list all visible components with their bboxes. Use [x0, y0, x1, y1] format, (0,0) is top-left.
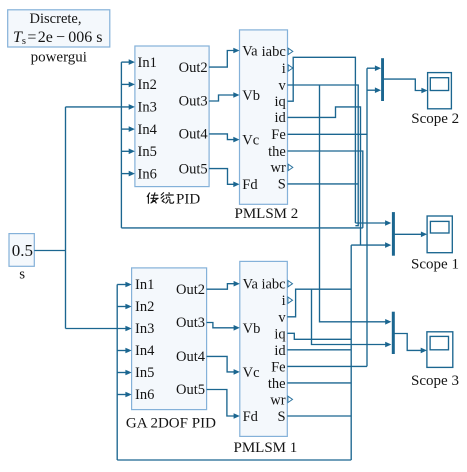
subsystem U2 GA 2DOF PID block [132, 268, 207, 410]
svg-text:powergui: powergui [31, 50, 87, 66]
wire In4 of U1 [121, 126, 134, 132]
wire PMLSM2 Fe [288, 133, 368, 135]
wire input trunk U1 [120, 62, 122, 228]
svg-text:Out5: Out5 [179, 161, 208, 177]
wire branch v to Scope3 mux input 2 [312, 289, 392, 347]
svg-text:Fe: Fe [271, 127, 286, 143]
wire U2 Out5 to PMLSM1 Fd [207, 390, 240, 419]
wire In6 of U2 [117, 392, 131, 398]
open arrow PMLSM2 iabc [288, 48, 293, 54]
PMLSM 2 block [240, 30, 288, 204]
wire In1 of U2 [117, 282, 131, 288]
wire feedback to U1 trunk [121, 227, 362, 229]
wire PMLSM2 v branch down to Scope3 mux input 1 [320, 85, 392, 325]
wire In3 of U1 [66, 104, 135, 110]
svg-text:id: id [274, 343, 286, 359]
wire PMLSM2 the [288, 151, 363, 228]
svg-text:In6: In6 [135, 387, 154, 403]
svg-text:Out4: Out4 [176, 349, 206, 365]
svg-text:i: i [282, 61, 286, 77]
svg-text:PMLSM 1: PMLSM 1 [234, 440, 298, 456]
wire U1 Out4 to PMLSM2 Vc [209, 134, 239, 143]
svg-text:wr: wr [270, 392, 285, 408]
svg-text:S: S [278, 177, 286, 193]
wire In2 of U2 [117, 304, 131, 310]
wire In5 of U1 [121, 149, 134, 155]
wire PMLSM2 iq [288, 57, 356, 223]
svg-text:In2: In2 [135, 299, 154, 315]
label 传统 PID (CJK glyphs drawn) [147, 191, 200, 207]
svg-text:Fe: Fe [271, 359, 286, 375]
wire riser from constant to In3 nodes [65, 107, 67, 329]
wire In3 of U2 [66, 326, 132, 332]
svg-text:In4: In4 [135, 343, 155, 359]
wire input trunk U2 [116, 285, 118, 461]
svg-text:Va: Va [243, 277, 259, 293]
open arrow PMLSM1 i [288, 297, 293, 303]
subsystem U1 传统 PID block [135, 46, 209, 187]
mux for Scope 1 [392, 212, 395, 256]
constant block 0.5 [9, 234, 34, 267]
Scope 3 block [427, 332, 453, 368]
wire PMLSM1 S [287, 415, 351, 417]
svg-text:the: the [268, 144, 286, 160]
wire PMLSM1 Fe [287, 365, 367, 367]
svg-text:s: s [19, 267, 25, 283]
svg-text:Out2: Out2 [179, 60, 208, 76]
svg-text:iabc: iabc [261, 277, 285, 293]
svg-text:the: the [268, 376, 286, 392]
svg-text:In3: In3 [135, 321, 154, 337]
svg-text:wr: wr [270, 160, 285, 176]
svg-text:Out3: Out3 [176, 315, 205, 331]
svg-text:Out2: Out2 [176, 282, 205, 298]
wire Scope3 mux output to Scope3 [395, 334, 427, 354]
wire U2 Out3 to PMLSM1 Vb [207, 323, 240, 331]
svg-text:In3: In3 [138, 100, 157, 116]
wire In5 of U2 [117, 370, 131, 376]
wire bottom feedback to U2 trunk [117, 459, 351, 461]
open arrow PMLSM1 iabc [288, 281, 293, 287]
wire PMLSM1 the [287, 382, 351, 384]
open arrow PMLSM1 wr [288, 396, 293, 402]
svg-text:In1: In1 [135, 277, 154, 293]
wire U1 Out2 to PMLSM2 Va [209, 48, 239, 67]
wire Scope2 mux input 2 [367, 87, 381, 93]
svg-text:Out3: Out3 [179, 94, 208, 110]
Scope 2 block [428, 73, 452, 109]
svg-text:Discrete,: Discrete, [30, 11, 82, 27]
svg-text:Vb: Vb [243, 321, 261, 337]
powergui block [8, 10, 110, 47]
svg-text:Ts = 2e − 006 s: Ts = 2e − 006 s [13, 29, 102, 47]
PMLSM 1 block [240, 261, 287, 436]
svg-text:Scope 2: Scope 2 [411, 111, 459, 127]
wire U1 Out5 to PMLSM2 Fd [209, 169, 239, 188]
wire long vertical to Scope2 mux [366, 68, 368, 366]
svg-text:v: v [278, 310, 286, 326]
wire Scope1 mux input 2 [351, 242, 391, 248]
svg-text:Out5: Out5 [176, 382, 205, 398]
wire In2 of U1 [121, 82, 134, 88]
wire Scope2 mux input 1 [367, 65, 381, 71]
svg-text:In5: In5 [138, 144, 157, 160]
mux for Scope 2 [381, 58, 384, 101]
svg-text:Vc: Vc [243, 365, 260, 381]
Scope 1 block [427, 216, 452, 253]
svg-text:In5: In5 [135, 365, 154, 381]
wire In4 of U2 [117, 348, 131, 354]
svg-text:In6: In6 [138, 166, 157, 182]
svg-text:PMLSM 2: PMLSM 2 [235, 206, 299, 222]
svg-text:In1: In1 [138, 55, 157, 71]
svg-text:Va: Va [242, 43, 258, 59]
wire PMLSM2 S [288, 183, 359, 185]
wire PMLSM1 v [287, 289, 351, 317]
wire U1 Out3 to PMLSM2 Vb [209, 92, 239, 101]
svg-text:GA 2DOF PID: GA 2DOF PID [126, 415, 216, 431]
svg-text:In4: In4 [138, 122, 158, 138]
wire PMLSM2 id [288, 107, 361, 245]
svg-text:v: v [279, 78, 287, 94]
open arrow PMLSM2 wr [288, 164, 293, 170]
svg-text:Fd: Fd [243, 409, 259, 425]
svg-text:0.5: 0.5 [12, 241, 33, 260]
svg-text:In2: In2 [138, 77, 157, 93]
wire PMLSM2 v [288, 85, 359, 226]
wire PMLSM1 id [287, 349, 351, 351]
wire U2 Out4 to PMLSM1 Vc [207, 356, 240, 374]
wire In6 of U1 [121, 171, 134, 177]
svg-text:Scope 1: Scope 1 [411, 257, 459, 273]
svg-text:Scope 3: Scope 3 [411, 373, 459, 389]
svg-text:Vb: Vb [242, 88, 260, 104]
svg-text:id: id [275, 110, 287, 126]
wire Scope1 mux input 1 [355, 220, 391, 226]
svg-text:S: S [278, 409, 286, 425]
svg-text:iq: iq [274, 326, 285, 342]
wire PMLSM1 iq [287, 333, 351, 339]
svg-text:Vc: Vc [242, 133, 259, 149]
wire Scope2 mux output to Scope2 [384, 79, 428, 93]
wire In1 of U1 [121, 59, 134, 65]
svg-text:i: i [282, 293, 286, 309]
svg-text:PID: PID [176, 191, 200, 207]
wire Scope1 mux output to Scope1 [395, 232, 428, 238]
wire right trunk vertical [350, 245, 352, 460]
mux for Scope 3 [392, 312, 395, 354]
wire U2 Out2 to PMLSM1 Va [207, 281, 240, 289]
svg-text:iq: iq [275, 94, 286, 110]
open arrow PMLSM2 i [288, 65, 293, 71]
svg-text:Fd: Fd [242, 177, 258, 193]
wire constant 0.5 output [34, 250, 65, 252]
svg-text:Out4: Out4 [179, 127, 209, 143]
svg-text:iabc: iabc [262, 44, 286, 60]
